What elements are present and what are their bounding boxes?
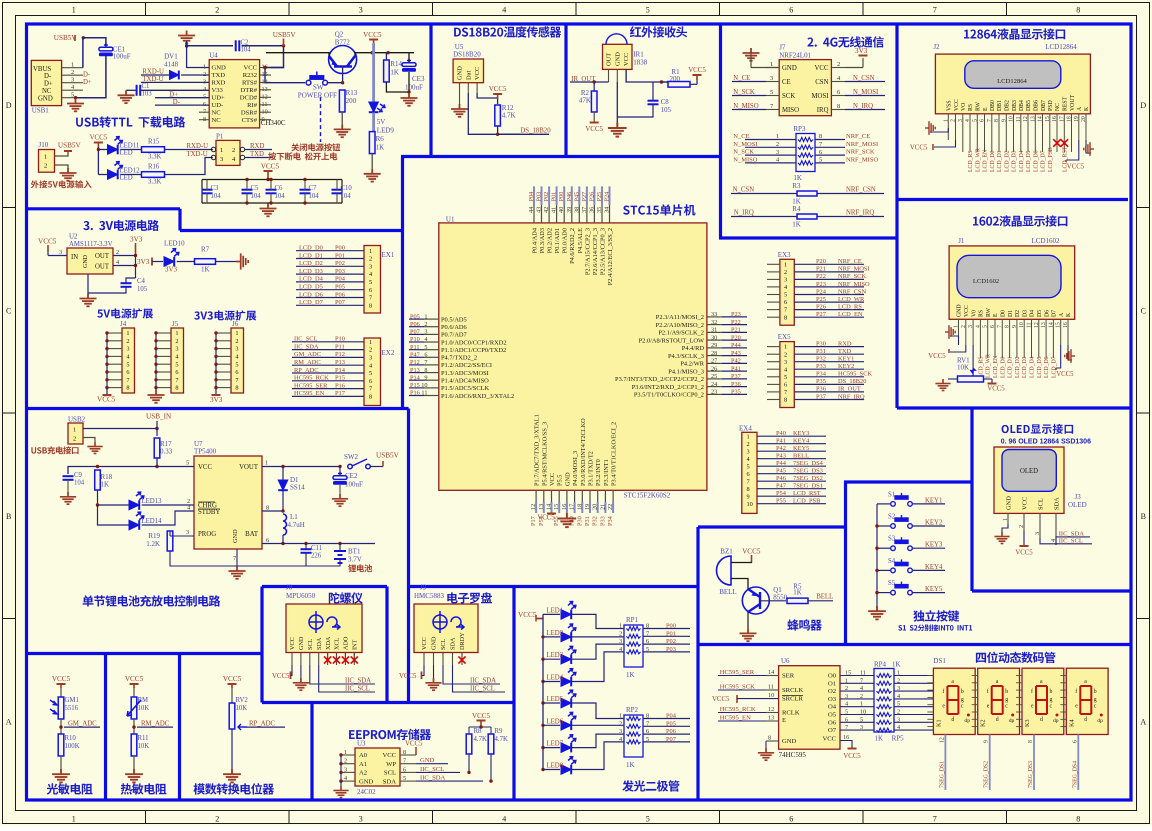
pin U6 O3 xyxy=(840,698,874,700)
svg-text:P36: P36 xyxy=(731,381,741,388)
svg-text:R3: R3 xyxy=(792,182,801,190)
pin J7 1 xyxy=(766,67,779,69)
pin OLED 4 xyxy=(1055,513,1057,545)
svg-text:B: B xyxy=(1141,512,1146,521)
pin ds1 d1 5 xyxy=(927,711,933,713)
pin ds1 d4 7 xyxy=(1060,726,1066,728)
svg-text:V0: V0 xyxy=(971,310,977,317)
svg-text:SRCLK: SRCLK xyxy=(782,687,803,694)
svg-text:3: 3 xyxy=(175,346,178,353)
svg-text:VCC5: VCC5 xyxy=(272,673,290,680)
svg-text:5: 5 xyxy=(235,361,238,368)
svg-text:LCD_D2: LCD_D2 xyxy=(299,260,323,267)
svg-text:NRF_MISO: NRF_MISO xyxy=(846,156,878,163)
wire EX2 row 5 xyxy=(292,372,364,374)
svg-text:O1: O1 xyxy=(828,680,836,687)
ground USB1 xyxy=(67,99,84,112)
wire P1 to RXD xyxy=(245,149,272,151)
capacitor CE2 xyxy=(333,472,347,485)
pin J7 5 xyxy=(766,95,779,97)
svg-text:EX5: EX5 xyxy=(778,333,791,341)
svg-text:RM_ADC: RM_ADC xyxy=(141,721,170,728)
svg-text:LCD_RST: LCD_RST xyxy=(793,490,821,497)
svg-text:1: 1 xyxy=(1002,518,1009,521)
svg-text:LED14: LED14 xyxy=(142,518,163,525)
svg-text:6: 6 xyxy=(266,537,269,544)
svg-text:NRF_CSN: NRF_CSN xyxy=(846,187,876,194)
pin ds1 d2 0 xyxy=(972,675,978,677)
title compass xyxy=(447,592,492,603)
svg-text:P22: P22 xyxy=(816,273,826,280)
svg-text:e: e xyxy=(987,704,990,710)
svg-text:USB5V: USB5V xyxy=(273,31,297,39)
wire C8 xyxy=(652,82,654,101)
svg-text:14: 14 xyxy=(1048,322,1054,328)
svg-text:14: 14 xyxy=(768,669,774,676)
svg-text:STC15F2K60S2: STC15F2K60S2 xyxy=(624,492,671,500)
svg-text:P4.0/MOSI_3: P4.0/MOSI_3 xyxy=(572,451,579,486)
svg-text:P17: P17 xyxy=(335,390,346,397)
svg-text:104: 104 xyxy=(74,480,85,487)
pin U1 left 4 xyxy=(424,341,439,343)
svg-text:6: 6 xyxy=(424,352,427,359)
svg-text:S1: S1 xyxy=(888,491,895,498)
svg-text:2: 2 xyxy=(897,709,900,716)
pin U4 right 11 xyxy=(260,104,271,106)
svg-text:LCD_D4: LCD_D4 xyxy=(1030,356,1036,378)
wire r8 dn xyxy=(468,754,470,772)
wire LED11 to R15 xyxy=(120,149,142,151)
pin ds1 d1 4 xyxy=(927,704,933,706)
pin U4 right 13 xyxy=(260,89,271,91)
svg-text:GM1: GM1 xyxy=(65,697,79,704)
diode D1 xyxy=(278,480,288,490)
svg-text:42: 42 xyxy=(543,207,550,213)
svg-text:3V3: 3V3 xyxy=(130,236,143,244)
svg-text:P07: P07 xyxy=(335,299,346,306)
svg-text:GND: GND xyxy=(457,66,464,80)
svg-text:27: 27 xyxy=(711,358,717,365)
svg-text:USB5V: USB5V xyxy=(54,34,78,42)
svg-text:IN: IN xyxy=(71,254,78,261)
capacitor C10 xyxy=(332,190,343,194)
svg-text:VCC5: VCC5 xyxy=(489,86,507,93)
wire d1 xyxy=(282,467,284,481)
wire gnd to C2 xyxy=(187,41,233,46)
pin ds1 d3 4 xyxy=(1016,704,1022,706)
svg-text:XDA: XDA xyxy=(325,636,332,650)
svg-text:104: 104 xyxy=(251,193,262,200)
wire vout xyxy=(262,466,340,468)
wire USB5V to SW xyxy=(265,68,305,83)
svg-text:P4.6/RXD2_2: P4.6/RXD2_2 xyxy=(569,228,576,264)
svg-text:P06: P06 xyxy=(410,321,420,328)
svg-text:11: 11 xyxy=(1016,116,1022,122)
svg-text:GM_ADC: GM_ADC xyxy=(68,721,97,728)
svg-text:VCC: VCC xyxy=(964,305,970,317)
wire oled sda xyxy=(1056,537,1090,545)
ground C9 xyxy=(60,492,76,504)
svg-text:P15: P15 xyxy=(410,382,420,389)
svg-text:5: 5 xyxy=(175,361,178,368)
svg-text:C9: C9 xyxy=(74,472,83,479)
svg-text:d: d xyxy=(996,717,999,723)
svg-text:P44: P44 xyxy=(776,460,787,467)
svg-text:NC: NC xyxy=(1055,103,1061,111)
svg-text:DB7: DB7 xyxy=(1041,100,1047,111)
svg-text:P45: P45 xyxy=(573,192,580,202)
svg-text:KEY3: KEY3 xyxy=(793,430,809,437)
svg-text:VCC: VCC xyxy=(815,65,829,72)
wire J5 pin 8 xyxy=(156,387,171,389)
wire key out xyxy=(912,592,945,594)
wire lx xyxy=(262,510,283,512)
svg-text:1K: 1K xyxy=(875,735,884,743)
svg-text:GND: GND xyxy=(38,95,53,102)
svg-text:1: 1 xyxy=(44,154,47,161)
svg-text:EX4: EX4 xyxy=(739,425,752,433)
svg-text:LCD_RS: LCD_RS xyxy=(978,356,984,378)
title 3.3V power xyxy=(83,220,159,231)
wire Q2 base xyxy=(328,67,343,83)
wire rp4 out 6 xyxy=(894,721,933,723)
svg-text:LCD_WR: LCD_WR xyxy=(986,354,992,378)
capacitor CE1 xyxy=(99,43,113,56)
pin J9 2 xyxy=(433,653,435,666)
svg-text:VCC: VCC xyxy=(822,736,836,743)
svg-text:c: c xyxy=(961,704,964,710)
pin 4 USB1 xyxy=(62,89,83,91)
svg-text:P01: P01 xyxy=(335,252,345,259)
svg-text:P5.5: P5.5 xyxy=(557,475,564,486)
svg-text:5: 5 xyxy=(646,5,650,14)
wire EX1 row 2 xyxy=(296,258,364,260)
wire 7seg com 2 xyxy=(989,735,991,791)
wire EX1 row 6 xyxy=(296,289,364,291)
pin J8 3 xyxy=(309,653,311,666)
7seg digit 1 xyxy=(933,668,975,734)
nc x marks J8 xyxy=(327,653,329,663)
section border photocell row top xyxy=(27,652,263,655)
svg-text:R14: R14 xyxy=(390,60,402,68)
svg-text:C4: C4 xyxy=(137,278,146,285)
svg-text:J6: J6 xyxy=(232,320,239,328)
title IR receiver xyxy=(630,26,687,37)
title 3V3 power expand xyxy=(194,310,256,320)
svg-text:P10: P10 xyxy=(335,336,345,343)
section border IR/2.4G divider xyxy=(719,24,722,238)
capacitor C2 xyxy=(236,40,240,51)
svg-text:N_SCK: N_SCK xyxy=(733,149,754,156)
wire J4 pin 5 xyxy=(107,363,122,365)
svg-text:3: 3 xyxy=(770,75,773,82)
svg-text:P2.1/A9/SCLK_2: P2.1/A9/SCLK_2 xyxy=(658,330,704,337)
svg-text:1K: 1K xyxy=(376,144,385,152)
pin U3 left 2 xyxy=(341,763,355,765)
svg-text:6: 6 xyxy=(845,716,848,723)
rp3 row 4 xyxy=(745,162,796,164)
svg-text:103: 103 xyxy=(142,91,153,98)
wire EX2 row 7 xyxy=(292,388,364,390)
svg-text:5: 5 xyxy=(646,736,649,743)
svg-text:V33: V33 xyxy=(212,87,224,94)
svg-text:VSS: VSS xyxy=(947,100,953,111)
svg-text:4: 4 xyxy=(860,685,863,692)
pin U1 bottom 16 xyxy=(566,490,568,502)
svg-text:7SEG_DS4: 7SEG_DS4 xyxy=(793,460,824,467)
svg-text:7: 7 xyxy=(175,377,178,384)
pin ds1 d2 7 xyxy=(972,726,978,728)
title 12864 xyxy=(964,28,1065,39)
svg-text:P16: P16 xyxy=(335,382,345,389)
svg-text:200: 200 xyxy=(670,75,681,83)
key bus xyxy=(876,504,878,606)
svg-text:TXD-U: TXD-U xyxy=(187,151,208,158)
svg-text:C: C xyxy=(1141,307,1146,316)
svg-text:8: 8 xyxy=(1005,325,1011,328)
pin J9 5 xyxy=(461,653,463,666)
svg-text:7: 7 xyxy=(235,377,238,384)
svg-text:2: 2 xyxy=(232,147,235,154)
svg-text:P32: P32 xyxy=(816,356,826,363)
svg-text:WP: WP xyxy=(386,761,396,768)
svg-text:P03: P03 xyxy=(536,192,543,202)
svg-text:LCD_D6: LCD_D6 xyxy=(299,291,323,298)
svg-text:1: 1 xyxy=(776,133,779,140)
svg-text:K3: K3 xyxy=(1024,719,1031,727)
display OLED module xyxy=(994,447,1064,513)
junction bat xyxy=(281,542,284,545)
svg-text:3V3: 3V3 xyxy=(210,396,223,404)
svg-text:KEY2: KEY2 xyxy=(925,520,943,527)
svg-text:BELL: BELL xyxy=(719,588,737,596)
pin U6 O1 xyxy=(840,682,874,684)
pin 1 USB1 xyxy=(62,67,83,69)
svg-text:OLED: OLED xyxy=(1068,501,1087,509)
pin U1 top 42 xyxy=(548,205,550,223)
section border pot right xyxy=(310,703,313,801)
pin 2 USB1 xyxy=(62,74,83,76)
svg-text:g: g xyxy=(1094,697,1097,703)
svg-text:CTS#: CTS# xyxy=(242,117,258,124)
section border compass block top xyxy=(409,585,515,588)
svg-text:R8: R8 xyxy=(474,728,483,735)
svg-text:D: D xyxy=(1140,101,1146,110)
svg-text:O6: O6 xyxy=(828,719,837,726)
wire U2 out4 xyxy=(113,265,136,267)
section border left bottom column xyxy=(696,527,699,800)
svg-text:LED11: LED11 xyxy=(120,143,140,150)
svg-text:P47: P47 xyxy=(410,352,420,359)
svg-text:6: 6 xyxy=(784,382,787,389)
svg-text:13: 13 xyxy=(768,715,774,722)
svg-text:5V: 5V xyxy=(377,118,386,126)
svg-text:LED: LED xyxy=(120,150,133,157)
resistor R8 xyxy=(466,734,472,754)
svg-text:8: 8 xyxy=(266,505,269,512)
svg-text:2: 2 xyxy=(784,351,787,358)
wire rp4 out 0 xyxy=(894,675,933,677)
svg-text:VCC: VCC xyxy=(549,473,556,486)
wire r19 gnd xyxy=(170,551,237,566)
pin J8 7 xyxy=(344,653,346,666)
svg-text:R11: R11 xyxy=(138,735,149,742)
pin J2 1 xyxy=(947,114,949,140)
svg-text:P3.2/INT0: P3.2/INT0 xyxy=(595,459,602,486)
svg-text:10: 10 xyxy=(860,709,866,716)
svg-text:7: 7 xyxy=(126,377,129,384)
svg-text:AMS1117-3.3V: AMS1117-3.3V xyxy=(69,241,113,248)
dashed wire SW note xyxy=(320,97,322,142)
svg-text:N_CE: N_CE xyxy=(733,133,749,140)
svg-text:1: 1 xyxy=(73,427,76,434)
resistor R17 xyxy=(154,438,160,458)
svg-text:3: 3 xyxy=(359,814,363,823)
svg-text:C7: C7 xyxy=(309,185,318,192)
svg-text:39: 39 xyxy=(566,207,573,213)
svg-text:38: 38 xyxy=(573,207,580,213)
svg-text:O0: O0 xyxy=(828,673,837,680)
junction xyxy=(59,725,62,728)
pin J1 1 xyxy=(958,319,960,345)
svg-text:D2: D2 xyxy=(1015,310,1021,317)
capacitor C11 xyxy=(301,549,312,553)
svg-text:HC595_SER: HC595_SER xyxy=(294,382,328,389)
svg-text:8: 8 xyxy=(1076,814,1080,823)
pin J2 8 xyxy=(998,114,1000,152)
pin IR1 1 xyxy=(608,69,610,82)
svg-text:e: e xyxy=(1075,704,1078,710)
svg-text:LCD_D5: LCD_D5 xyxy=(299,284,323,291)
svg-text:NRF_IRQ: NRF_IRQ xyxy=(838,393,865,400)
wire C2 to USB5V xyxy=(242,45,284,47)
pin U1 top 39 xyxy=(571,205,573,223)
svg-text:P35: P35 xyxy=(731,389,741,396)
svg-text:VCC5: VCC5 xyxy=(363,31,382,39)
pin ds1 d2 2 xyxy=(972,689,978,691)
wire bz1 vcc xyxy=(731,561,752,564)
svg-text:VCC: VCC xyxy=(623,53,630,66)
capacitor C6 xyxy=(266,190,277,194)
svg-text:D: D xyxy=(6,101,12,110)
svg-text:1K: 1K xyxy=(201,266,210,274)
svg-text:VCC5: VCC5 xyxy=(537,515,555,522)
svg-text:11: 11 xyxy=(768,684,774,691)
svg-text:LCD_D4: LCD_D4 xyxy=(1019,150,1025,172)
pin U6 O6 xyxy=(840,721,874,723)
svg-text:OLED: OLED xyxy=(1020,468,1038,475)
junction u2 xyxy=(134,254,137,257)
pin U4 right 12 xyxy=(260,96,271,98)
wire rp4 out 7 xyxy=(894,729,933,731)
LED LED12 xyxy=(108,170,118,180)
svg-text:NC: NC xyxy=(212,117,222,124)
svg-text:d: d xyxy=(951,717,954,723)
svg-text:2: 2 xyxy=(837,61,840,68)
svg-text:KEY4: KEY4 xyxy=(793,438,810,445)
svg-text:104: 104 xyxy=(309,193,320,200)
svg-text:6: 6 xyxy=(235,369,238,376)
wire J4 pin 6 xyxy=(107,371,122,373)
pin U5 1 xyxy=(459,83,461,93)
svg-text:3V3: 3V3 xyxy=(855,47,868,55)
svg-text:2: 2 xyxy=(215,814,219,823)
wires led to rp1 xyxy=(572,614,624,628)
svg-text:P2.3/A11/MOSI_2: P2.3/A11/MOSI_2 xyxy=(656,314,704,321)
wire R7 gnd xyxy=(216,261,237,263)
svg-text:RP4: RP4 xyxy=(874,661,887,669)
svg-text:R4: R4 xyxy=(792,205,801,213)
svg-text:L1: L1 xyxy=(290,513,298,521)
wire DV1 to U4 xyxy=(181,74,209,76)
diode DV1 xyxy=(170,71,179,80)
pin ds1 d2 6 xyxy=(972,718,978,720)
wire j1 K xyxy=(1068,345,1072,360)
title LED block xyxy=(622,780,679,791)
wire irout to R2 xyxy=(593,82,595,91)
svg-text:14: 14 xyxy=(546,503,553,510)
svg-text:C5: C5 xyxy=(251,185,260,192)
svg-text:3: 3 xyxy=(747,448,750,455)
svg-text:LCD_EN: LCD_EN xyxy=(838,311,863,318)
svg-text:LCD_D0: LCD_D0 xyxy=(990,150,996,172)
svg-text:1: 1 xyxy=(424,313,427,320)
svg-text:R232: R232 xyxy=(243,72,257,79)
resistor R15 xyxy=(142,147,165,153)
wire J4 vcc xyxy=(106,388,108,395)
pin ds1 d1 3 xyxy=(927,696,933,698)
pin J2 16 xyxy=(1056,114,1058,152)
pin J2 20 xyxy=(1085,114,1087,140)
wire J5 pin 5 xyxy=(156,363,171,365)
svg-text:4: 4 xyxy=(502,814,506,823)
svg-text:16: 16 xyxy=(1063,322,1069,328)
svg-text:LCD_PSB: LCD_PSB xyxy=(1048,147,1054,172)
LED LED11 xyxy=(108,145,118,155)
svg-text:7: 7 xyxy=(987,119,993,122)
svg-text:RXD-U: RXD-U xyxy=(187,143,209,150)
svg-text:R10: R10 xyxy=(65,735,77,742)
ground (C2 top) xyxy=(178,31,195,44)
wire EX5 row 8 xyxy=(767,399,780,401)
pin U3 right 5 xyxy=(400,780,416,782)
wire EX3 row 4 xyxy=(767,286,780,288)
svg-text:3: 3 xyxy=(369,263,372,270)
svg-text:GND: GND xyxy=(564,472,571,486)
LED LED7 xyxy=(541,746,544,749)
svg-text:1: 1 xyxy=(943,119,949,122)
svg-text:P2.6/A14/CCP1_3: P2.6/A14/CCP1_3 xyxy=(592,228,599,275)
svg-text:LCD_D1: LCD_D1 xyxy=(299,252,323,259)
svg-text:1.2K: 1.2K xyxy=(146,540,160,548)
svg-text:CH340C: CH340C xyxy=(261,119,286,127)
svg-text:NRF_IRQ: NRF_IRQ xyxy=(846,210,874,217)
svg-text:P27: P27 xyxy=(816,311,827,318)
ground R7 (rotated) xyxy=(236,253,248,269)
LED LED9 xyxy=(369,102,379,112)
pin U1 right 24 xyxy=(707,386,722,388)
transistor Q2 xyxy=(329,46,357,74)
svg-text:2: 2 xyxy=(175,338,178,345)
svg-text:VCC5: VCC5 xyxy=(125,675,144,683)
wire usb_in drop xyxy=(156,421,158,436)
wire EX2 row 4 xyxy=(292,364,364,366)
section border 7seg top xyxy=(698,643,1131,646)
wire EX3 row 6 xyxy=(767,301,780,303)
section border keys block xyxy=(844,482,847,646)
svg-text:D-: D- xyxy=(83,72,91,79)
wire J6 pin 5 xyxy=(216,363,231,365)
